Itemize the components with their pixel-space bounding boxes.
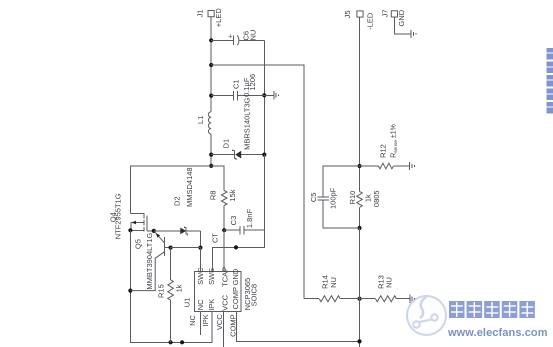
wire: +LED rail from J1 down to switch node [210,17,212,112]
resistor R15 1k [157,248,184,343]
connector J5 [343,10,374,29]
node: COMP/rail bottom junction [357,339,361,343]
wire: Q4 source down to VIN rail [130,230,212,342]
resistor R8 15k [209,189,237,205]
svg-text:U1: U1 [183,298,192,308]
svg-text:GND: GND [231,268,240,285]
svg-text:J7: J7 [381,9,390,17]
svg-text:NU: NU [249,30,258,41]
node: C5/R10 bottom [357,226,361,230]
svg-text:COMP: COMP [231,287,240,310]
node: base / R15 node [169,246,173,250]
svg-text:R12: R12 [378,144,387,158]
wire: base line to SWC node [171,247,201,249]
svg-text:COMP: COMP [229,314,238,337]
inductor L1 [196,112,211,134]
node: SWC node [198,246,202,250]
wire: L1 bottom to switch node [210,134,212,166]
ground (C1/C6 gnd) [264,91,278,99]
pin VCC wire to edge [223,311,225,347]
wire: y65 line from rail to x304 corner [211,65,304,299]
svg-text:R10: R10 [348,191,357,205]
svg-text:Q5: Q5 [134,239,143,249]
wire: CT node down to TCAP pin [223,230,225,271]
watermark text [447,301,548,339]
svg-text:+: + [228,34,232,41]
node: D1 anode / gnd line [262,153,266,157]
resistor R10 1k 0805 (inline on J5 line) [348,190,381,207]
svg-text:SWE: SWE [207,268,216,285]
svg-text:NU: NU [329,277,338,288]
svg-text:-LED: -LED [365,12,374,30]
svg-text:1k: 1k [175,284,184,292]
wire: J5 line down whole page [359,17,361,191]
node: CT node [222,228,226,232]
wire: gnd net vertical C6 corner down to D1 anode [263,40,265,154]
diode D1 MBRS140LT3G (schottky) [211,97,264,160]
svg-text:IPK: IPK [207,299,216,311]
capacitor C3 1.8nF [224,209,264,235]
svg-text:VCC: VCC [215,314,224,330]
svg-text:D1: D1 [222,139,231,149]
node: R13/R14 junction [357,297,361,301]
node: Q5 collector to source line [128,289,132,293]
svg-text:100pF: 100pF [329,187,338,209]
svg-text:VCC: VCC [221,294,230,310]
svg-text:NC: NC [196,299,205,310]
svg-text:NU: NU [385,277,394,288]
svg-text:C1: C1 [231,79,240,89]
node: GND pin junction on SWE line [234,245,238,249]
connector J1 [196,8,224,28]
svg-text:NTF2955T1G: NTF2955T1G [114,193,123,239]
ground (J7) [394,17,416,38]
svg-text:0805: 0805 [372,190,381,207]
svg-text:SOIC8: SOIC8 [249,284,258,307]
wire: R10 bottom to C5 bottom node [359,207,361,298]
node: switch node / D1 cathode [209,153,213,157]
svg-text:CT: CT [211,233,220,243]
svg-text:MBRS140LT3G: MBRS140LT3G [242,97,251,150]
wire: R8 to CT node [223,206,225,231]
resistor R13 NU [360,275,410,302]
wire: R8 branch from switch node [211,166,224,191]
capacitor C1 [211,74,264,101]
svg-text:J5: J5 [343,10,352,18]
ground (R12) [410,162,415,170]
svg-text:L1: L1 [196,116,205,124]
svg-text:J1: J1 [196,9,205,17]
svg-text:D2: D2 [172,196,181,206]
svg-text:1206: 1206 [248,74,257,91]
svg-text:MMBT3904LT1G: MMBT3904LT1G [145,232,154,289]
pin COMP wire to J5 line [236,311,359,341]
capacitor C6 (polarized, NU) [211,30,264,46]
node: switch node / Q4 drain / R8 [209,164,213,168]
svg-text:MMSD4148: MMSD4148 [185,167,194,207]
diode D2 MMSD4148 [154,167,201,235]
wire: D2 cathode down to SWC node [199,231,201,248]
capacitor C5 100pF [309,166,359,228]
wire: SWC pin [199,248,201,272]
watermark right edge [547,48,553,114]
watermark logo [407,296,446,335]
op-amp U1 NCP3065 box [183,267,259,312]
node: Q4 source node [128,228,132,232]
svg-text:R15: R15 [157,284,166,298]
svg-text:C3: C3 [229,216,238,226]
resistor R14 NU [304,275,360,302]
svg-text:IPK: IPK [201,314,210,326]
svg-text:www.elecfans.com: www.elecfans.com [447,327,548,339]
wire: gnd line D1 anode down to SWE corner [212,155,264,272]
svg-text:R8: R8 [209,191,218,201]
transistor Q4 NTF2955T1G (PMOS) [108,193,154,239]
node: R12 junction [357,164,361,168]
svg-text:15k: 15k [228,189,237,201]
node: rail/C6 junction [209,38,213,42]
svg-text:C5: C5 [309,193,318,203]
ground (R13) [410,295,415,303]
node: rail/C1 junction [209,94,213,98]
svg-text:GND: GND [397,9,406,26]
svg-text:+LED: +LED [214,8,223,28]
node: rail junction [180,340,184,344]
svg-text:1.8nF: 1.8nF [245,209,254,229]
svg-text:NC: NC [188,314,197,325]
connector J7 [381,9,407,26]
svg-text:TCAP: TCAP [221,267,230,287]
resistor R12 Rsense [360,124,410,169]
wire: J5 line lower sections [359,228,361,299]
node: gnd net / C1 / ground stub [262,93,266,97]
node: R15 bottom on rail [169,340,173,344]
node: rail/y65 line junction [209,63,213,67]
pin NC stub [199,311,201,335]
node: Q4 gate node [152,229,156,233]
svg-text:SWC: SWC [196,267,205,285]
wire: switch node left to Q4 drain [130,166,211,214]
transistor Q5 MMBT3904LT1G (NPN) [130,232,170,291]
